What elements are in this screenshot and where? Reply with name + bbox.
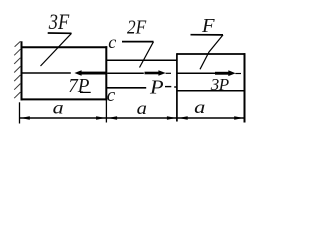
bar segment 1 top edge [21, 46, 108, 48]
area callout F leader slash [200, 35, 223, 69]
svg-text:a: a [137, 98, 147, 118]
svg-text:a: a [53, 98, 64, 118]
wall hatching [14, 41, 20, 98]
dimension arrows at junction 2 [167, 116, 177, 120]
area callout F overline [191, 34, 224, 36]
bar segment 3 top edge [177, 53, 245, 55]
area callout 3F overline [48, 32, 72, 34]
bar segment 3 left edge [176, 53, 178, 121]
bar segment 1 right edge (section c-c) [105, 46, 107, 100]
force arrow P (right) [145, 70, 166, 76]
dimension extension line (wall) [19, 102, 21, 123]
bar segment 3 bottom edge [177, 90, 245, 92]
bar axis centerline [22, 72, 216, 74]
bar segment 2 bottom edge (left of P) [106, 87, 146, 89]
svg-text:c: c [107, 85, 116, 106]
label 7P underline [80, 91, 91, 93]
svg-text:3F: 3F [48, 9, 70, 34]
wall face line [21, 41, 23, 100]
svg-text:F: F [201, 15, 215, 37]
bar segment 3 right edge + dimension extension [244, 53, 246, 122]
bar segment 2 bottom edge (right of P) [165, 86, 171, 88]
bar segment 1 bottom edge [21, 98, 108, 100]
dimension extension line (section c) [105, 100, 107, 122]
dimension arrow at right end (points right) [234, 116, 244, 120]
dimension line [20, 117, 245, 119]
svg-text:a: a [194, 97, 205, 117]
svg-text:c: c [108, 32, 116, 52]
dimension arrows at section c [96, 116, 106, 120]
svg-text:3P: 3P [210, 75, 229, 94]
force arrow 7P (left) [74, 70, 106, 76]
force arrow 3P (right) [215, 70, 236, 76]
svg-text:7P: 7P [68, 75, 89, 97]
svg-text:2F: 2F [127, 17, 147, 39]
dimension arrow at wall (points left) [20, 116, 30, 120]
area callout 2F leader slash [140, 42, 154, 68]
bar segment 2 top edge [106, 59, 177, 61]
area callout 2F overline [122, 41, 154, 43]
svg-text:P: P [149, 77, 164, 99]
area callout 3F leader slash [41, 33, 72, 66]
